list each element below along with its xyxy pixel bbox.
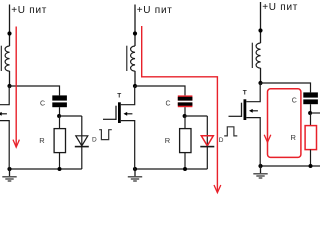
wire: inductor bottom to drain node circuit 1: [9, 71, 11, 86]
svg-text:C: C: [292, 97, 297, 104]
transistor T2 channel bar: [118, 102, 121, 123]
node: resistor bottom junction dot circuit 3: [309, 164, 313, 168]
inductor L2 winding: [131, 46, 135, 71]
diode D1 cathode bar: [75, 146, 89, 148]
wire: bottom rail circuit 1: [10, 168, 82, 170]
transistor T2 drain lead: [121, 86, 135, 105]
gate drive negative pulse symbol circuit 2: [99, 130, 112, 140]
wire: supply drop circuit 3: [260, 2, 262, 43]
wire: mid rail circuit 1: [59, 115, 82, 117]
ground symbol circuit 1: [2, 169, 16, 181]
node: supply junction dot circuit 2: [133, 31, 137, 35]
inductor L2 core bar: [126, 46, 128, 71]
inductor L1 core bar: [0, 46, 2, 71]
transistor T2 source lead: [121, 121, 135, 169]
capacitor C3 bottom plate: [303, 99, 318, 104]
transistor T3 gate bar: [241, 103, 243, 117]
node: supply junction dot circuit 1: [7, 31, 11, 35]
node: ground junction dot circuit 3: [258, 164, 262, 168]
svg-text:C: C: [166, 100, 171, 107]
red current path through D2 into C2: [142, 26, 218, 192]
node: ground junction dot circuit 1: [7, 167, 11, 171]
diode D1 triangle: [76, 136, 88, 146]
wire: supply drop circuit 1: [9, 5, 11, 47]
capacitor C1 top plate: [52, 95, 67, 100]
wire: mid rail to resistor R2: [184, 116, 186, 129]
wire: top rail to capacitor C3: [261, 83, 311, 92]
svg-text:D: D: [92, 137, 97, 144]
svg-text:+U пит: +U пит: [11, 5, 47, 16]
transistor T3 drain lead: [246, 83, 260, 102]
node: drain junction dot circuit 2: [133, 84, 137, 88]
wire: mid rail to resistor R1: [59, 116, 61, 129]
inductor L3 core bar: [251, 43, 253, 68]
wire: bottom rail circuit 2: [135, 168, 207, 170]
node: supply junction dot circuit 3: [258, 28, 262, 32]
node: resistor bottom junction dot circuit 1: [58, 167, 62, 171]
node: mid rail junction dot circuit 3: [308, 111, 312, 115]
svg-text:R: R: [291, 133, 297, 142]
svg-text:R: R: [165, 136, 171, 145]
capacitor C3 top plate: [303, 92, 318, 97]
wire: capacitor C1 to mid rail: [59, 107, 61, 116]
transistor T3 source lead: [246, 118, 260, 166]
red current arrow through L1 and T1: [15, 27, 17, 147]
wire: capacitor C2 to mid rail: [184, 107, 186, 116]
wire: resistor R1 to bottom rail: [59, 153, 61, 169]
wire: mid rail to resistor R3: [310, 113, 312, 126]
wire: resistor R2 to bottom rail: [184, 153, 186, 169]
node: drain junction dot circuit 1: [7, 84, 11, 88]
svg-text:T: T: [117, 93, 121, 100]
resistor R1: [54, 129, 65, 153]
svg-text:C: C: [40, 100, 45, 107]
svg-text:D: D: [219, 137, 224, 144]
wire: inductor bottom to drain node circuit 2: [134, 71, 136, 86]
inductor L1 winding: [5, 46, 9, 71]
wire: mid rail circuit 3 (clipped at right): [310, 112, 320, 114]
ground symbol circuit 3: [253, 166, 267, 178]
red loop arrowhead: [264, 135, 271, 143]
transistor T2 gate bar: [115, 106, 117, 120]
resistor R2: [180, 129, 191, 153]
capacitor C2 bottom plate (red highlighted): [178, 102, 193, 107]
resistor R3 (red highlighted): [305, 126, 316, 150]
transistor T3 body arrow: [251, 110, 258, 112]
svg-text:+U пит: +U пит: [262, 2, 298, 13]
wire: top rail to capacitor C2: [135, 86, 185, 95]
svg-text:T: T: [243, 90, 247, 97]
wire: mid rail to diode D2: [206, 116, 208, 169]
transistor T2 gate lead: [103, 118, 116, 120]
capacitor C1 bottom plate: [52, 102, 67, 107]
svg-text:R: R: [39, 136, 45, 145]
wire: top rail to capacitor C1: [10, 86, 60, 95]
node: drain junction dot circuit 3: [258, 81, 262, 85]
wire: mid rail to diode D1: [81, 116, 83, 169]
wire: bottom rail circuit 3 (clipped at right): [261, 165, 320, 167]
node: mid rail junction dot circuit 2: [183, 114, 187, 118]
wire: resistor R3 to bottom rail: [310, 150, 312, 166]
transistor T3 channel bar: [244, 99, 247, 120]
transistor T2 body arrow: [126, 113, 132, 115]
node: resistor bottom junction dot circuit 2: [183, 167, 187, 171]
diode D2 cathode bar: [200, 146, 214, 148]
transistor T1 source lead: [0, 121, 9, 169]
gate drive positive pulse symbol circuit 3: [224, 127, 237, 136]
red discharge loop through C3 and R3: [268, 89, 301, 158]
diode D2 triangle (red highlighted): [201, 136, 213, 146]
node: ground junction dot circuit 2: [133, 167, 137, 171]
wire: supply drop circuit 2: [134, 5, 136, 47]
svg-text:+U пит: +U пит: [137, 5, 173, 16]
transistor T1 (clipped at left edge): drain lead: [0, 86, 9, 105]
ground symbol circuit 2: [128, 169, 142, 181]
transistor T3 gate lead: [229, 115, 242, 117]
node: mid rail junction dot circuit 1: [57, 114, 61, 118]
wire: mid rail circuit 2: [185, 115, 208, 117]
wire: capacitor C3 to mid rail: [310, 104, 312, 113]
inductor L3 winding: [256, 43, 260, 68]
capacitor C2 top plate (red highlighted): [178, 95, 193, 100]
wire: inductor bottom to drain node circuit 3: [260, 68, 262, 83]
transistor T1 body arrow (clipped): [0, 113, 7, 115]
